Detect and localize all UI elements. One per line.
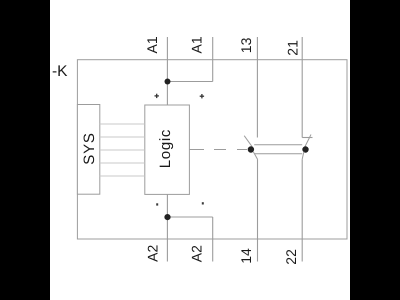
right letterbox band xyxy=(350,0,400,300)
svg-text:SYS: SYS xyxy=(81,132,98,164)
svg-text:A1: A1 xyxy=(189,36,205,53)
node junction dot on A1 xyxy=(165,79,171,85)
svg-text:22: 22 xyxy=(283,249,299,265)
contact bridge bar upper xyxy=(254,144,302,146)
bus line 1 SYS to Logic xyxy=(100,123,145,125)
wire terminal 14 vertical xyxy=(257,159,259,261)
contact lower link 22 xyxy=(302,152,304,160)
contact bridge bar lower xyxy=(254,153,302,155)
polarity plus mark at A1 coil input xyxy=(155,94,159,98)
wire terminal A2 (first) vertical xyxy=(166,194,168,261)
wire joining node to second A2 xyxy=(167,216,212,218)
wire terminal A1 (first) vertical xyxy=(166,37,168,105)
wire terminal 13 vertical xyxy=(256,37,258,138)
svg-text:A1: A1 xyxy=(144,36,160,53)
polarity plus mark at second A1 xyxy=(200,94,204,98)
contact pivot dot 13-14 xyxy=(248,146,254,152)
contact lower link 14 xyxy=(253,152,257,160)
wire terminal 22 vertical xyxy=(301,159,303,261)
svg-text:Logic: Logic xyxy=(157,129,174,168)
relay device outline -K xyxy=(77,60,347,239)
svg-text:21: 21 xyxy=(285,40,301,56)
svg-text:-K: -K xyxy=(52,63,68,80)
svg-text:A2: A2 xyxy=(188,245,204,262)
contact pivot dot 21-22 xyxy=(302,146,308,152)
terminal 21 fixed-contact tick xyxy=(302,137,312,139)
svg-text:14: 14 xyxy=(238,248,254,264)
wire terminal A1 (second) vertical xyxy=(212,37,214,82)
bus line 5 SYS to Logic xyxy=(100,175,145,177)
node junction dot on A2 xyxy=(164,214,170,220)
left letterbox band xyxy=(0,0,50,300)
wire joining second A1 to node xyxy=(167,81,212,83)
wire terminal 21 vertical xyxy=(301,37,303,138)
wire terminal A2 (second) vertical xyxy=(212,217,214,262)
bus line 4 SYS to Logic xyxy=(100,162,145,164)
polarity minus mark at A2 coil output xyxy=(156,203,158,205)
bus line 3 SYS to Logic xyxy=(100,149,145,151)
contact blade 21-22 xyxy=(304,135,311,149)
SYS input block xyxy=(77,105,99,195)
bus line 2 SYS to Logic xyxy=(100,136,145,138)
contact blade 13-14 xyxy=(244,136,253,149)
svg-text:A2: A2 xyxy=(145,245,161,262)
polarity minus mark at second A2 xyxy=(202,202,204,204)
Logic block U1 xyxy=(145,105,190,194)
mechanical link dashed from Logic to contact xyxy=(189,149,204,151)
svg-text:13: 13 xyxy=(238,37,254,53)
